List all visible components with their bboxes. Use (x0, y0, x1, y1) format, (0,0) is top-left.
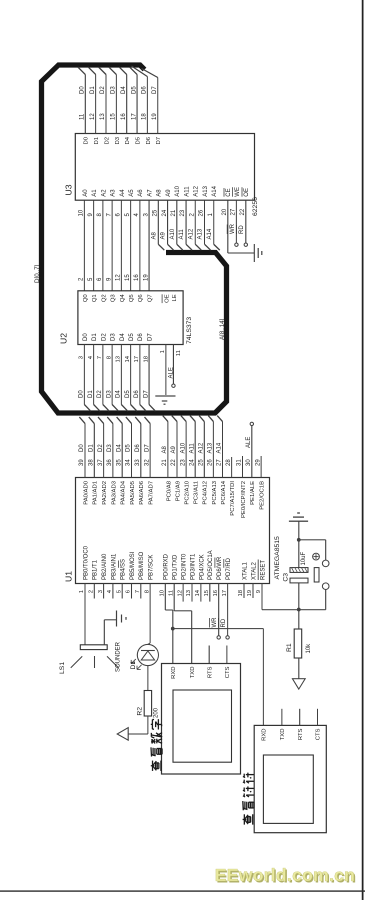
U2 pin 14 D5 (125, 333, 137, 411)
U2 pin 9 Q3 (106, 277, 116, 302)
svg-text:D6: D6 (135, 444, 141, 452)
wire RXD PD0 to module (165, 610, 173, 664)
U2 pin 12 Q4 (116, 274, 126, 302)
svg-text:PD1/TXD: PD1/TXD (173, 554, 179, 580)
svg-text:Q2: Q2 (101, 294, 107, 302)
ground at U3 CE (254, 244, 261, 262)
U1 pin 35 PA4/AD4 net D4 (116, 417, 126, 505)
wire LS1 to ground (104, 620, 116, 645)
svg-text:A10: A10 (180, 442, 186, 453)
svg-text:PC2/A10: PC2/A10 (185, 480, 191, 504)
svg-text:LE: LE (172, 294, 178, 301)
svg-text:25: 25 (153, 209, 159, 216)
U1 pin 3 PB2/AIN0 (98, 553, 108, 599)
svg-text:11: 11 (168, 590, 174, 596)
svg-text:A14: A14 (217, 442, 223, 453)
svg-text:CTS: CTS (316, 728, 322, 740)
svg-text:Q1: Q1 (92, 294, 98, 302)
U2 pin 3 D0 (79, 333, 91, 411)
node RXD junction (171, 627, 175, 631)
svg-text:D1: D1 (90, 86, 96, 94)
svg-text:A11: A11 (189, 443, 195, 454)
U3 pin 7 A3 (106, 189, 116, 291)
svg-text:A2: A2 (101, 189, 107, 197)
svg-text:200: 200 (153, 707, 159, 718)
svg-text:PA6/AD6: PA6/AD6 (139, 480, 145, 505)
svg-text:A10: A10 (175, 185, 181, 196)
U1 pin 23 PC2/A10 (180, 416, 190, 505)
svg-text:D3: D3 (107, 444, 113, 452)
svg-text:18: 18 (238, 589, 244, 596)
U1 pin 15 PD5/OC1A (204, 550, 214, 601)
svg-text:U3: U3 (64, 184, 74, 195)
U1 pin 31 PE0/ICP/INT2 (237, 456, 247, 518)
svg-text:C3: C3 (282, 573, 289, 582)
U1 pin 1 PB0/T0/OC0 (79, 545, 89, 644)
svg-text:RESET: RESET (260, 560, 266, 580)
U1 pin 38 PA1/AD1 net D1 (89, 417, 99, 505)
svg-text:15: 15 (125, 274, 131, 281)
svg-text:PD2/INT0: PD2/INT0 (182, 553, 188, 580)
svg-text:D4: D4 (116, 390, 122, 398)
svg-text:D2: D2 (101, 333, 107, 341)
R2 value 200 (153, 707, 159, 718)
svg-text:PA0/AD0: PA0/AD0 (83, 480, 89, 505)
svg-text:PA5/AD5: PA5/AD5 (130, 480, 136, 505)
svg-text:D1: D1 (89, 444, 95, 452)
svg-text:14: 14 (125, 355, 131, 362)
svg-text:PA3/AD3: PA3/AD3 (111, 480, 117, 505)
U3 part 62256 (252, 197, 259, 216)
svg-text:PB7/SCK: PB7/SCK (149, 555, 155, 580)
svg-text:PC5/A13: PC5/A13 (212, 480, 218, 504)
module1 pin CTS (225, 666, 231, 678)
wire module2 CTS stub (317, 709, 319, 726)
svg-text:RTS: RTS (298, 728, 304, 740)
R1 label (286, 643, 293, 652)
wire module1 RTS stub (208, 646, 210, 664)
svg-text:7: 7 (135, 590, 141, 593)
U1 pin 32 PA7/AD7 net D7 (144, 417, 154, 505)
svg-text:11: 11 (176, 350, 182, 356)
U1 pin 18 XTAL1 (238, 561, 248, 598)
svg-text:D2: D2 (97, 390, 103, 398)
sheet border right (362, 0, 364, 900)
svg-text:14: 14 (195, 589, 201, 596)
C3 label (282, 573, 289, 582)
svg-text:A8: A8 (157, 189, 163, 197)
U3 pin 21 A10 (170, 185, 183, 250)
svg-text:U2: U2 (59, 333, 69, 344)
U2 pin 11 LE net ALE (168, 294, 182, 387)
U3 pin 10 A0 (79, 189, 89, 291)
svg-text:TXD: TXD (190, 667, 196, 679)
svg-text:A14: A14 (212, 185, 218, 196)
svg-text:CTS: CTS (225, 666, 231, 678)
svg-text:Q7: Q7 (147, 294, 153, 302)
U3 pin 19 D7 (142, 69, 163, 145)
svg-text:A11: A11 (184, 186, 190, 197)
U1 pin 9 RESET (256, 560, 266, 610)
svg-text:17: 17 (131, 113, 137, 120)
svg-text:OE: OE (164, 294, 170, 303)
svg-text:D3: D3 (111, 86, 117, 94)
svg-text:2: 2 (89, 590, 95, 593)
svg-text:A[8..14]: A[8..14] (219, 318, 226, 340)
mcu U1 ATMEGA8515 body (76, 478, 270, 584)
svg-text:28: 28 (226, 459, 232, 466)
U2 pin 5 Q1 (88, 277, 98, 302)
svg-text:PA2/AD2: PA2/AD2 (102, 481, 108, 505)
sounder LS1 (71, 645, 119, 668)
U1 pin 11 PD1/TXD (168, 554, 178, 611)
svg-text:17: 17 (134, 356, 140, 363)
svg-text:16: 16 (134, 274, 140, 281)
svg-text:12: 12 (177, 590, 183, 597)
svg-text:7: 7 (97, 356, 103, 359)
svg-text:D7: D7 (147, 333, 153, 341)
svg-text:10k: 10k (306, 643, 312, 654)
U2 pin 4 D1 (88, 333, 100, 411)
svg-text:36: 36 (107, 459, 113, 466)
svg-text:D0: D0 (83, 333, 89, 341)
U3 pin 27 WE net WR (227, 187, 241, 246)
U3 pin 23 A11 (179, 186, 192, 250)
U1 pin 33 PA6/AD6 net D6 (135, 417, 145, 505)
U2 pin 13 D4 (116, 333, 128, 411)
svg-text:ATMEGA8515: ATMEGA8515 (274, 536, 281, 580)
svg-text:D2: D2 (104, 137, 110, 145)
svg-text:D7: D7 (152, 86, 158, 94)
U3 pin 20 CE to ground (222, 188, 254, 253)
svg-text:WE: WE (235, 187, 241, 197)
U2 pin 6 Q2 (97, 277, 107, 302)
U3 pin 22 OE net RD (237, 187, 251, 246)
U3 pin 13 D2 (99, 67, 111, 145)
U2 pin 16 Q6 (134, 274, 144, 302)
svg-text:74LS373: 74LS373 (186, 317, 193, 344)
svg-text:16: 16 (121, 113, 127, 120)
svg-text:A13: A13 (208, 442, 214, 453)
U2 pin 1 OE to ground (160, 294, 170, 395)
svg-text:LS1: LS1 (59, 662, 66, 674)
U2 pin 8 D3 (106, 333, 118, 411)
svg-text:D[0..7]: D[0..7] (34, 264, 41, 283)
svg-text:A13: A13 (198, 228, 204, 239)
capacitor C3 (290, 540, 308, 610)
U2 pin 19 Q7 (143, 274, 153, 302)
svg-text:10uF: 10uF (301, 551, 307, 565)
U2 designator (59, 333, 69, 344)
push button S1 reset (299, 540, 329, 610)
latch U2 74LS373 body (78, 291, 183, 345)
wire RXD to module2 (173, 629, 264, 726)
U3 pin 9 A1 (88, 189, 98, 291)
svg-text:D4: D4 (116, 444, 122, 452)
U1 pin 6 PB5/MOSI (126, 551, 136, 598)
U1 pin 4 PB3/AIN1 (107, 553, 117, 599)
node reset-bottom junction (297, 608, 301, 612)
svg-text:D0: D0 (84, 136, 90, 144)
svg-text:1: 1 (79, 590, 85, 593)
U1 pin 27 PC6/A14 (217, 416, 227, 505)
svg-text:PB2/AIN0: PB2/AIN0 (102, 553, 108, 580)
svg-text:PC7/A15/TDI: PC7/A15/TDI (230, 481, 236, 516)
svg-text:A0: A0 (83, 189, 89, 197)
U1 pin 30 PE1/ALE (246, 422, 256, 505)
svg-text:A9: A9 (166, 189, 172, 197)
svg-text:19: 19 (247, 590, 253, 597)
svg-text:32: 32 (144, 459, 150, 466)
svg-text:D3: D3 (115, 136, 121, 144)
U1 pin 5 PB4/SS (116, 559, 126, 599)
svg-text:12: 12 (116, 274, 122, 281)
watermark EEworld.com.cn (215, 865, 357, 886)
svg-text:26: 26 (208, 459, 214, 466)
power flag at R2 (117, 728, 128, 741)
svg-text:27: 27 (217, 459, 223, 466)
svg-text:RD: RD (221, 618, 227, 627)
svg-text:A5: A5 (129, 189, 135, 197)
U3 pin 18 D6 (132, 66, 152, 145)
U1 pin 19 XTAL2 (247, 561, 257, 598)
svg-text:D7: D7 (156, 137, 162, 145)
U1 pin 28 PC7/A15/TDI (226, 457, 236, 516)
svg-text:15: 15 (111, 113, 117, 120)
module1 pin TXD (190, 667, 196, 679)
svg-text:A1: A1 (92, 189, 98, 197)
svg-text:XTAL1: XTAL1 (242, 561, 248, 580)
U1 pin 16 PD6/WR (210, 556, 224, 639)
svg-text:13: 13 (186, 589, 192, 596)
svg-text:ALE: ALE (246, 437, 252, 448)
U3 pin 6 A4 (116, 189, 126, 291)
wire module2 RTS stub (299, 709, 301, 726)
svg-text:19: 19 (143, 274, 149, 281)
svg-text:12: 12 (90, 113, 96, 120)
svg-text:PA1/AD1: PA1/AD1 (93, 481, 99, 505)
svg-text:D5: D5 (131, 86, 137, 94)
svg-text:22: 22 (171, 459, 177, 466)
svg-text:24: 24 (189, 459, 195, 466)
svg-text:PB6/MISO: PB6/MISO (139, 551, 145, 580)
svg-text:62256: 62256 (252, 197, 259, 216)
svg-text:XTAL2: XTAL2 (251, 561, 257, 580)
svg-text:PA4/AD4: PA4/AD4 (121, 480, 127, 505)
U1 pin 21 PC0/A8 (162, 416, 172, 502)
svg-text:D3: D3 (111, 333, 117, 341)
svg-text:D2: D2 (100, 86, 106, 94)
LS1 text SOUNDER (116, 641, 122, 672)
svg-text:D6: D6 (146, 136, 152, 144)
svg-text:23: 23 (180, 459, 186, 466)
U3 pin 26 A13 (198, 185, 211, 250)
U2 part 74LS373 (186, 317, 193, 344)
wire module2 TXD stub (281, 709, 283, 726)
svg-text:PD0/RXD: PD0/RXD (164, 553, 170, 580)
U2 pin 2 Q0 (79, 277, 89, 302)
svg-text:34: 34 (126, 459, 132, 466)
U2 pin 18 D7 (143, 333, 155, 411)
bus label D[0..7] (34, 264, 41, 283)
svg-text:30: 30 (246, 459, 252, 466)
svg-text:11: 11 (80, 113, 86, 120)
svg-text:16: 16 (213, 589, 219, 596)
R2 label (137, 707, 144, 716)
U1 pin 8 PB7/SCK (144, 555, 154, 643)
svg-text:D5: D5 (129, 333, 135, 341)
svg-text:PE0/ICP/INT2: PE0/ICP/INT2 (241, 481, 247, 518)
svg-text:RTS: RTS (207, 666, 213, 678)
svg-text:18: 18 (143, 355, 149, 362)
U1 pin 24 PC3/A11 (189, 416, 199, 505)
svg-text:Q6: Q6 (138, 294, 144, 303)
svg-text:D6: D6 (142, 86, 148, 94)
svg-text:21: 21 (171, 209, 177, 216)
U1 pin 29 PE2/OC1B (255, 456, 265, 510)
svg-text:D6: D6 (134, 390, 140, 398)
R1 value 10k (306, 643, 312, 654)
U1 pin 17 PD7/RD (218, 557, 232, 639)
module2 pin CTS (316, 728, 322, 740)
svg-text:25: 25 (199, 459, 205, 466)
svg-text:Q4: Q4 (120, 294, 126, 303)
sheet border bottom (0, 890, 365, 892)
led D1 (131, 643, 158, 669)
U3 pin 5 A5 (125, 189, 135, 291)
svg-text:CE: CE (226, 188, 232, 196)
svg-text:13: 13 (116, 355, 122, 362)
svg-text:22: 22 (240, 208, 246, 215)
svg-text:D4: D4 (125, 136, 131, 144)
svg-text:D0: D0 (80, 86, 86, 94)
U3 pin 17 D5 (130, 67, 142, 145)
svg-text:20: 20 (222, 208, 228, 215)
svg-text:A9: A9 (171, 445, 177, 453)
U1 pin 10 PD0/RXD (160, 553, 170, 610)
D1 label (130, 661, 137, 670)
svg-text:PD3/INT1: PD3/INT1 (190, 553, 196, 580)
svg-text:PC1/A9: PC1/A9 (175, 481, 181, 501)
svg-text:A11: A11 (179, 229, 185, 240)
svg-text:A12: A12 (188, 228, 194, 239)
svg-text:13: 13 (100, 113, 106, 120)
power flag at R1 (292, 679, 305, 689)
svg-text:Q0: Q0 (83, 294, 89, 303)
svg-text:PD5/OC1A: PD5/OC1A (208, 550, 214, 580)
svg-text:38: 38 (89, 459, 95, 466)
U1 pin 13 PD3/INT1 (186, 553, 196, 602)
U1 pin 26 PC5/A13 (208, 416, 218, 505)
svg-text:D7: D7 (143, 390, 149, 398)
caption view-digits (Chinese) (151, 719, 162, 771)
svg-text:U1: U1 (64, 571, 74, 582)
svg-text:15: 15 (204, 589, 210, 596)
svg-text:TXD: TXD (280, 729, 286, 741)
svg-text:RXD: RXD (171, 667, 177, 679)
module2 pin RTS (298, 728, 304, 740)
svg-text:23: 23 (180, 209, 186, 216)
U3 pin 12 D1 (88, 67, 100, 145)
svg-text:PB0/T0/OC0: PB0/T0/OC0 (83, 545, 89, 580)
svg-text:PE1/ALE: PE1/ALE (250, 481, 256, 505)
U3 pin 25 A8 (151, 189, 164, 250)
svg-text:WR: WR (212, 617, 218, 628)
svg-text:35: 35 (116, 459, 122, 466)
svg-text:RXD: RXD (262, 729, 268, 741)
svg-text:ALE: ALE (168, 367, 174, 378)
U3 designator (64, 184, 74, 195)
bus label A[8..14] (219, 318, 226, 340)
module1 pin RXD (171, 667, 177, 679)
svg-text:A8: A8 (162, 445, 168, 453)
svg-text:PD6/WR: PD6/WR (217, 556, 223, 580)
U1 pin 2 PB1/T1 (89, 559, 99, 598)
module1 pin RTS (207, 666, 213, 678)
U2 pin 15 Q5 (125, 274, 135, 302)
U1 pin 22 PC1/A9 (171, 416, 181, 502)
U1 designator (64, 571, 74, 582)
svg-text:27: 27 (231, 208, 237, 215)
svg-text:PB3/AIN1: PB3/AIN1 (111, 553, 117, 580)
wire module1 CTS stub (226, 646, 228, 664)
svg-text:PB5/MOSI: PB5/MOSI (130, 551, 136, 580)
svg-text:Q3: Q3 (111, 294, 117, 303)
svg-text:39: 39 (79, 459, 85, 466)
U1 pin 14 PD4/XCK (195, 554, 205, 601)
svg-text:PC0/A8: PC0/A8 (166, 480, 172, 501)
svg-text:PE2/OC1B: PE2/OC1B (260, 481, 266, 510)
svg-text:PB1/T1: PB1/T1 (93, 559, 99, 580)
C3 value 10uF (301, 551, 307, 565)
svg-text:SOUNDER: SOUNDER (116, 641, 122, 672)
svg-text:D0: D0 (79, 444, 85, 452)
svg-text:D0: D0 (79, 390, 85, 398)
sram U3 62256 body (75, 134, 254, 201)
U1 pin 39 PA0/AD0 net D0 (79, 417, 89, 505)
svg-text:10: 10 (79, 209, 85, 216)
resistor R2 (128, 666, 151, 734)
svg-text:37: 37 (98, 459, 104, 466)
svg-text:D4: D4 (120, 333, 126, 341)
svg-text:A14: A14 (207, 228, 213, 239)
svg-text:D1: D1 (94, 137, 100, 145)
U3 pin 3 A7 (143, 189, 153, 291)
U2 pin 17 D6 (134, 333, 146, 411)
svg-text:PB4/SS: PB4/SS (121, 559, 127, 580)
svg-text:A10: A10 (170, 228, 176, 239)
U3 pin 1 A14 (207, 185, 220, 250)
resistor R1 (294, 610, 302, 679)
svg-text:26: 26 (199, 209, 205, 216)
U2 pin 7 D2 (97, 333, 109, 411)
U1 pin 25 PC4/A12 (199, 416, 209, 505)
U3 pin 11 D0 (78, 67, 90, 145)
svg-text:EEworld.com.cn: EEworld.com.cn (215, 865, 355, 885)
svg-text:1: 1 (160, 350, 166, 353)
svg-text:D5: D5 (125, 390, 131, 398)
svg-text:A13: A13 (203, 185, 209, 196)
svg-text:PD7/RD: PD7/RD (226, 557, 232, 580)
LS1 label (59, 662, 66, 674)
svg-text:D1: D1 (130, 661, 137, 670)
svg-text:A12: A12 (194, 185, 200, 196)
ground at U2 OE (155, 396, 175, 404)
svg-text:OE: OE (244, 188, 250, 197)
svg-text:19: 19 (152, 113, 158, 120)
svg-text:10: 10 (160, 589, 166, 596)
svg-text:D5: D5 (135, 136, 141, 144)
